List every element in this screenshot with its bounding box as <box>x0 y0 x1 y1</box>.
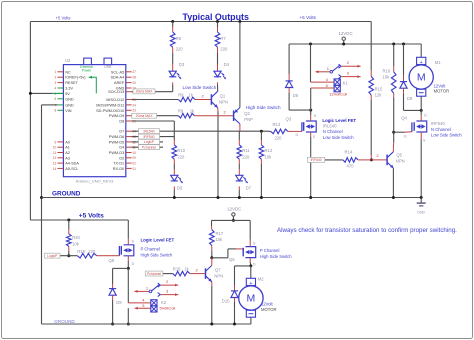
svg-text:D5: D5 <box>177 185 183 190</box>
wire +5 to R15 <box>370 22 372 77</box>
svg-text:NC: NC <box>65 70 71 74</box>
wire to D10 <box>235 266 251 291</box>
svg-text:R18: R18 <box>173 267 181 272</box>
wire +5 volts bottom rail <box>30 219 128 222</box>
wire <box>238 159 240 175</box>
svg-text:SD-PWM-DIO10: SD-PWM-DIO10 <box>96 109 124 113</box>
svg-text:M1: M1 <box>435 60 441 65</box>
wire Q5 emitter to ground <box>392 168 395 199</box>
resistor R19 <box>77 249 96 258</box>
wire 12V to R16 <box>392 43 395 72</box>
resistor R10 <box>172 145 186 160</box>
Arduino left power pins <box>55 70 87 113</box>
svg-text:R19: R19 <box>77 249 85 254</box>
svg-text:D2: D2 <box>119 156 124 160</box>
svg-text:D: D <box>424 114 427 118</box>
wire <box>358 153 387 160</box>
label 12Volt MOTOR 2 <box>261 302 277 312</box>
label Pchannel box <box>139 145 160 150</box>
label 20ma MAX box 1 <box>133 89 155 94</box>
svg-text:Q4: Q4 <box>401 115 407 120</box>
wire <box>260 130 263 145</box>
svg-text:IRL540: IRL540 <box>323 123 337 128</box>
svg-text:Q1: Q1 <box>220 93 226 98</box>
svg-text:PWM-D9: PWM-D9 <box>109 114 124 118</box>
wire <box>210 246 213 260</box>
svg-text:20ma MAX: 20ma MAX <box>136 90 154 94</box>
svg-text:14: 14 <box>53 167 57 171</box>
svg-text:Power: Power <box>82 69 92 73</box>
svg-text:3: 3 <box>55 81 57 85</box>
label Low Side Switch <box>323 135 354 140</box>
wire D5 net <box>132 141 163 143</box>
resistor R11 <box>237 145 250 160</box>
svg-text:D: D <box>314 114 317 118</box>
svg-text:GND: GND <box>65 97 74 101</box>
label External Power <box>80 65 93 72</box>
svg-text:Q2: Q2 <box>244 111 250 116</box>
wire <box>238 186 241 199</box>
svg-text:P Channel: P Channel <box>260 248 280 253</box>
wire Q4 gate <box>394 131 412 133</box>
svg-text:GROUND: GROUND <box>52 191 81 198</box>
svg-text:24: 24 <box>132 103 136 107</box>
svg-text:High Side Switch: High Side Switch <box>246 105 281 110</box>
svg-text:5VoltCoil: 5VoltCoil <box>160 306 176 311</box>
svg-text:G: G <box>404 134 407 138</box>
svg-text:R17: R17 <box>216 231 224 236</box>
svg-text:D4: D4 <box>224 62 230 67</box>
svg-text:+5 Volts: +5 Volts <box>79 213 104 220</box>
wire <box>111 295 114 325</box>
svg-text:K1: K1 <box>343 80 349 85</box>
svg-text:MOTOR: MOTOR <box>434 89 450 94</box>
ground rail <box>42 197 422 199</box>
wire Q3 source to ground <box>309 132 312 199</box>
wire D6 net <box>132 136 175 138</box>
svg-text:4: 4 <box>55 86 57 90</box>
Arduino USB connector tab <box>104 58 112 65</box>
svg-text:12VoltCoil: 12VoltCoil <box>329 91 347 96</box>
svg-text:10: 10 <box>132 151 136 155</box>
transistor Q4 IRF540 <box>401 114 427 143</box>
svg-text:PWM-D3: PWM-D3 <box>109 151 124 155</box>
svg-text:3.3V: 3.3V <box>65 87 73 91</box>
wire <box>171 20 174 32</box>
svg-text:12k: 12k <box>375 93 383 98</box>
wire Q2 emitter to +5 <box>238 20 241 108</box>
diode D10 <box>222 291 238 304</box>
svg-text:R8: R8 <box>176 36 182 41</box>
transistor Q5 <box>387 152 405 168</box>
wire <box>288 131 302 137</box>
svg-text:220: 220 <box>177 155 185 160</box>
relay K1 contact <box>315 60 360 78</box>
svg-text:RX-D0: RX-D0 <box>113 167 124 171</box>
ground symbol <box>417 196 426 214</box>
svg-text:NPN: NPN <box>396 159 405 164</box>
svg-text:Typical Outputs: Typical Outputs <box>183 12 249 22</box>
svg-text:27: 27 <box>132 70 136 74</box>
resistor R13 <box>271 122 288 141</box>
wire M1 minus <box>420 96 422 110</box>
svg-text:R9: R9 <box>178 109 184 114</box>
supply 12VDC bottom <box>227 206 241 222</box>
resistor R16 <box>382 68 396 93</box>
wire D4 net <box>132 146 163 148</box>
svg-text:IRF540: IRF540 <box>310 158 321 162</box>
svg-text:D7: D7 <box>119 130 124 134</box>
wire <box>195 94 211 100</box>
svg-text:NPN: NPN <box>219 99 228 104</box>
svg-text:R7: R7 <box>220 36 226 41</box>
label IRF540 <box>431 121 445 126</box>
wire Q8 drain <box>127 256 130 270</box>
wire <box>404 88 423 112</box>
transistor Q2 <box>234 108 254 124</box>
svg-text:R10: R10 <box>177 148 185 153</box>
svg-text:09: 09 <box>132 156 136 160</box>
svg-text:220: 220 <box>176 47 184 52</box>
svg-text:20ma MAX: 20ma MAX <box>136 114 154 118</box>
relay K1 coil <box>311 77 349 96</box>
svg-text:SDA-A4: SDA-A4 <box>110 76 124 80</box>
svg-text:N Channel: N Channel <box>323 129 343 134</box>
svg-text:R11: R11 <box>242 148 250 153</box>
svg-text:K2: K2 <box>161 300 167 305</box>
wire <box>370 95 373 161</box>
label N Channel <box>431 127 451 132</box>
wire to M2 <box>250 266 252 279</box>
svg-text:2: 2 <box>55 76 57 80</box>
wire Q4 source to ground <box>420 132 422 198</box>
label P Channel 2 <box>260 248 280 253</box>
relay K2 coil <box>128 298 175 312</box>
svg-text:1: 1 <box>55 70 57 74</box>
wire 12V to M1 <box>420 44 422 57</box>
label LogicP box <box>139 139 160 144</box>
label IRL540 box <box>139 129 160 134</box>
LED D7 <box>236 175 252 190</box>
svg-text:M: M <box>417 72 426 84</box>
resistor R15 <box>369 76 383 97</box>
svg-text:220: 220 <box>88 249 96 254</box>
wire Q5 collector <box>392 148 394 151</box>
wire green 5V to +5 rail <box>29 92 64 95</box>
svg-text:D: D <box>132 262 135 266</box>
svg-text:LogicP: LogicP <box>144 140 155 144</box>
label Arduino_UNO_REV3 <box>76 178 114 183</box>
supply 12VDC top <box>339 31 353 45</box>
svg-text:D7: D7 <box>246 185 252 190</box>
label GROUND bottom <box>54 319 75 324</box>
svg-text:220: 220 <box>242 155 250 160</box>
svg-text:NPN: NPN <box>214 273 223 278</box>
label P Channel <box>141 247 161 252</box>
Arduino power connector tab <box>84 58 92 65</box>
wire M2 minus <box>250 318 252 324</box>
svg-text:IRF540: IRF540 <box>143 135 154 139</box>
diode D6 <box>286 81 299 98</box>
node +5 Volts label (top right) <box>300 15 317 20</box>
svg-text:10k: 10k <box>72 241 80 246</box>
svg-text:D8: D8 <box>119 120 124 124</box>
label Pchannel box 2 <box>145 271 163 276</box>
svg-text:+5 Volts: +5 Volts <box>56 16 71 21</box>
wire Q7 collector <box>211 258 213 266</box>
LED D4 <box>214 62 230 79</box>
wire <box>260 159 263 199</box>
wire <box>194 110 233 116</box>
wire <box>392 93 395 148</box>
wire <box>172 47 174 71</box>
svg-text:R13: R13 <box>273 122 281 127</box>
wire <box>238 131 240 145</box>
wire D7 net <box>132 130 271 132</box>
svg-text:PNP: PNP <box>244 117 253 122</box>
svg-text:RESET: RESET <box>65 81 78 85</box>
Arduino U2 body <box>63 58 125 177</box>
label LogicP box 2 <box>45 253 61 258</box>
label USB <box>104 65 112 69</box>
svg-text:U2: U2 <box>65 58 71 63</box>
svg-text:Low Side Switch: Low Side Switch <box>183 85 217 90</box>
svg-text:R9: R9 <box>178 93 184 98</box>
resistor R8 <box>170 32 183 52</box>
svg-text:GND: GND <box>417 210 425 214</box>
svg-text:D: D <box>253 262 256 266</box>
label GROUND <box>52 191 81 198</box>
svg-text:MISO-D12: MISO-D12 <box>106 98 124 102</box>
label 12Volt MOTOR <box>434 84 450 94</box>
wire Q6 drain <box>249 258 252 268</box>
svg-text:220: 220 <box>275 136 283 141</box>
svg-text:SCK-D13: SCK-D13 <box>108 90 124 94</box>
svg-text:Logic Level FET: Logic Level FET <box>141 237 175 242</box>
svg-text:R20: R20 <box>72 235 80 240</box>
svg-text:Pchannel: Pchannel <box>147 272 161 276</box>
transistor Q3 IRL540 <box>286 114 317 139</box>
LED D3 <box>169 62 185 79</box>
svg-text:Q7: Q7 <box>215 267 221 272</box>
label saturation note <box>277 227 457 234</box>
resistor R7 <box>215 32 228 52</box>
wire <box>68 220 70 234</box>
wire Q6 gate path <box>212 249 243 258</box>
label High Side Switch 2 <box>141 252 173 257</box>
label N Channel <box>323 129 343 134</box>
transistor Q7 <box>206 265 224 281</box>
svg-text:A4-SDA: A4-SDA <box>65 162 79 166</box>
wire D6 branch <box>288 44 290 81</box>
label 20ma MAX box 2 <box>132 113 157 118</box>
resistor R9 <box>178 93 195 102</box>
wire <box>190 268 206 274</box>
svg-text:Q5: Q5 <box>396 153 402 158</box>
label Logic Level FET 2 <box>141 237 175 242</box>
svg-text:IOREF(+5v): IOREF(+5v) <box>65 76 86 80</box>
svg-text:High Side Switch: High Side Switch <box>260 254 292 259</box>
resistor R6 <box>178 109 195 118</box>
wire Q4 drain <box>420 110 422 121</box>
wire <box>173 186 176 199</box>
wire Q2 collector <box>239 124 241 131</box>
svg-text:High Side Switch: High Side Switch <box>141 252 173 257</box>
svg-text:12Volt: 12Volt <box>261 302 273 307</box>
svg-text:10k: 10k <box>382 75 390 80</box>
wire R9 net <box>132 99 179 101</box>
wire 12V to D8 <box>402 43 405 82</box>
wire R17 column <box>211 220 213 229</box>
svg-text:A0: A0 <box>65 140 70 144</box>
svg-text:02: 02 <box>132 162 136 166</box>
wire LogicP net <box>60 255 77 257</box>
resistor R12 <box>259 145 273 160</box>
svg-text:12: 12 <box>53 156 57 160</box>
wire <box>173 140 175 145</box>
diode D9 <box>109 289 122 305</box>
svg-text:Low Side Switch: Low Side Switch <box>431 133 462 138</box>
wire <box>97 255 120 257</box>
wire <box>217 47 219 71</box>
svg-text:+5 Volts: +5 Volts <box>300 15 317 20</box>
svg-text:20: 20 <box>132 81 136 85</box>
svg-text:Always check for transistor sa: Always check for transistor saturation t… <box>277 227 457 234</box>
svg-text:10: 10 <box>53 146 57 150</box>
svg-text:M: M <box>247 293 256 305</box>
svg-text:TX-D1: TX-D1 <box>113 162 124 166</box>
Arduino analog pins A0-A5 <box>53 140 80 171</box>
wire K2 feed <box>127 268 130 325</box>
svg-text:N Channel: N Channel <box>431 127 451 132</box>
wire <box>233 298 236 326</box>
svg-text:PWM-D5: PWM-D5 <box>109 140 124 144</box>
svg-text:6: 6 <box>55 97 57 101</box>
svg-text:470: 470 <box>347 163 355 168</box>
wire IRF540 net <box>309 159 343 161</box>
wire D8 net <box>132 121 175 140</box>
diode D8 <box>400 82 413 102</box>
svg-text:G: G <box>296 133 299 137</box>
wire 12V bottom rail <box>212 219 251 221</box>
wire Q6 source <box>249 220 251 246</box>
svg-text:D10: D10 <box>222 299 230 304</box>
wire <box>132 82 173 91</box>
wire <box>289 88 311 111</box>
svg-text:D8: D8 <box>407 96 413 101</box>
wire to D9 <box>113 268 129 288</box>
title Typical Outputs <box>183 12 249 22</box>
svg-text:23: 23 <box>132 109 136 113</box>
svg-text:R15: R15 <box>375 86 383 91</box>
resistor R20 <box>67 234 81 247</box>
ground rail bottom <box>42 323 252 325</box>
wire Pchannel net <box>163 273 173 275</box>
wire <box>173 159 175 175</box>
wire Q3 drain <box>309 109 312 121</box>
wire <box>217 82 219 91</box>
svg-text:9: 9 <box>55 140 57 144</box>
resistor R17 <box>210 230 224 246</box>
svg-text:Arduino_UNO_REV3: Arduino_UNO_REV3 <box>76 178 114 183</box>
motor M2 <box>239 277 265 318</box>
svg-text:Q3: Q3 <box>286 116 292 121</box>
label IRL540 <box>323 123 337 128</box>
label High Side Switch 3 <box>260 254 292 259</box>
svg-text:D9: D9 <box>116 300 122 305</box>
svg-text:A2: A2 <box>65 151 70 155</box>
svg-text:A3: A3 <box>65 156 70 160</box>
wire <box>216 20 219 32</box>
transistor Q8 P-channel <box>109 240 135 266</box>
wire Q1 emitter to ground <box>217 108 220 199</box>
svg-text:12VDC: 12VDC <box>339 31 353 36</box>
svg-text:D4: D4 <box>119 146 124 150</box>
svg-text:R16: R16 <box>383 68 391 73</box>
LED D5 <box>171 175 183 190</box>
svg-text:VIN: VIN <box>65 109 72 113</box>
svg-text:28: 28 <box>132 76 136 80</box>
svg-text:R12: R12 <box>265 148 273 153</box>
wire GND down <box>40 105 58 324</box>
svg-text:5V: 5V <box>65 92 70 96</box>
wire relay pin5 to Q3 drain <box>310 88 312 110</box>
svg-text:SCL-A5: SCL-A5 <box>111 70 124 74</box>
svg-text:12VDC: 12VDC <box>227 206 241 211</box>
svg-text:11: 11 <box>53 151 57 155</box>
svg-text:GND: GND <box>65 103 74 107</box>
motor M1 <box>409 57 441 96</box>
node +5 Volts label (top left) <box>56 16 71 21</box>
svg-text:MOSI/PWM-D11: MOSI/PWM-D11 <box>96 103 124 107</box>
label High Side Switch <box>246 105 281 110</box>
svg-text:A1: A1 <box>65 146 70 150</box>
svg-text:A5-SCL: A5-SCL <box>65 167 78 171</box>
svg-text:10k: 10k <box>265 155 273 160</box>
svg-text:R14: R14 <box>345 149 353 154</box>
relay K2 contact <box>134 279 178 297</box>
wire Q8 source <box>127 220 129 245</box>
Arduino right pins <box>96 70 136 171</box>
svg-text:8: 8 <box>55 109 57 113</box>
svg-text:IRL540: IRL540 <box>144 129 155 133</box>
resistor R14 <box>343 149 358 168</box>
svg-text:220: 220 <box>220 47 228 52</box>
wire 12V rail <box>289 43 421 45</box>
svg-text:Low Side Switch: Low Side Switch <box>323 135 354 140</box>
svg-text:PWM-D6: PWM-D6 <box>109 135 124 139</box>
label +5 Volts bottom <box>79 213 104 220</box>
svg-text:Logic Level FET: Logic Level FET <box>322 118 356 123</box>
label IRF540 box <box>139 134 160 139</box>
label Low Side Switch <box>183 85 217 90</box>
wire +5V top rail <box>30 22 371 221</box>
svg-text:M2: M2 <box>258 277 264 282</box>
wire <box>67 246 70 257</box>
svg-text:MOTOR: MOTOR <box>261 307 277 312</box>
svg-text:USB: USB <box>104 65 112 69</box>
svg-text:01: 01 <box>132 167 136 171</box>
wire Q7 emitter <box>210 282 213 326</box>
svg-text:LogicP: LogicP <box>47 254 58 258</box>
label IRF540 box 2 <box>307 157 324 162</box>
label Logic Level FET <box>322 118 356 123</box>
svg-text:D3: D3 <box>179 62 185 67</box>
svg-text:Pchannel: Pchannel <box>142 145 156 149</box>
svg-text:D6: D6 <box>293 93 299 98</box>
svg-text:Q8: Q8 <box>109 258 115 263</box>
svg-text:AREF: AREF <box>114 81 125 85</box>
